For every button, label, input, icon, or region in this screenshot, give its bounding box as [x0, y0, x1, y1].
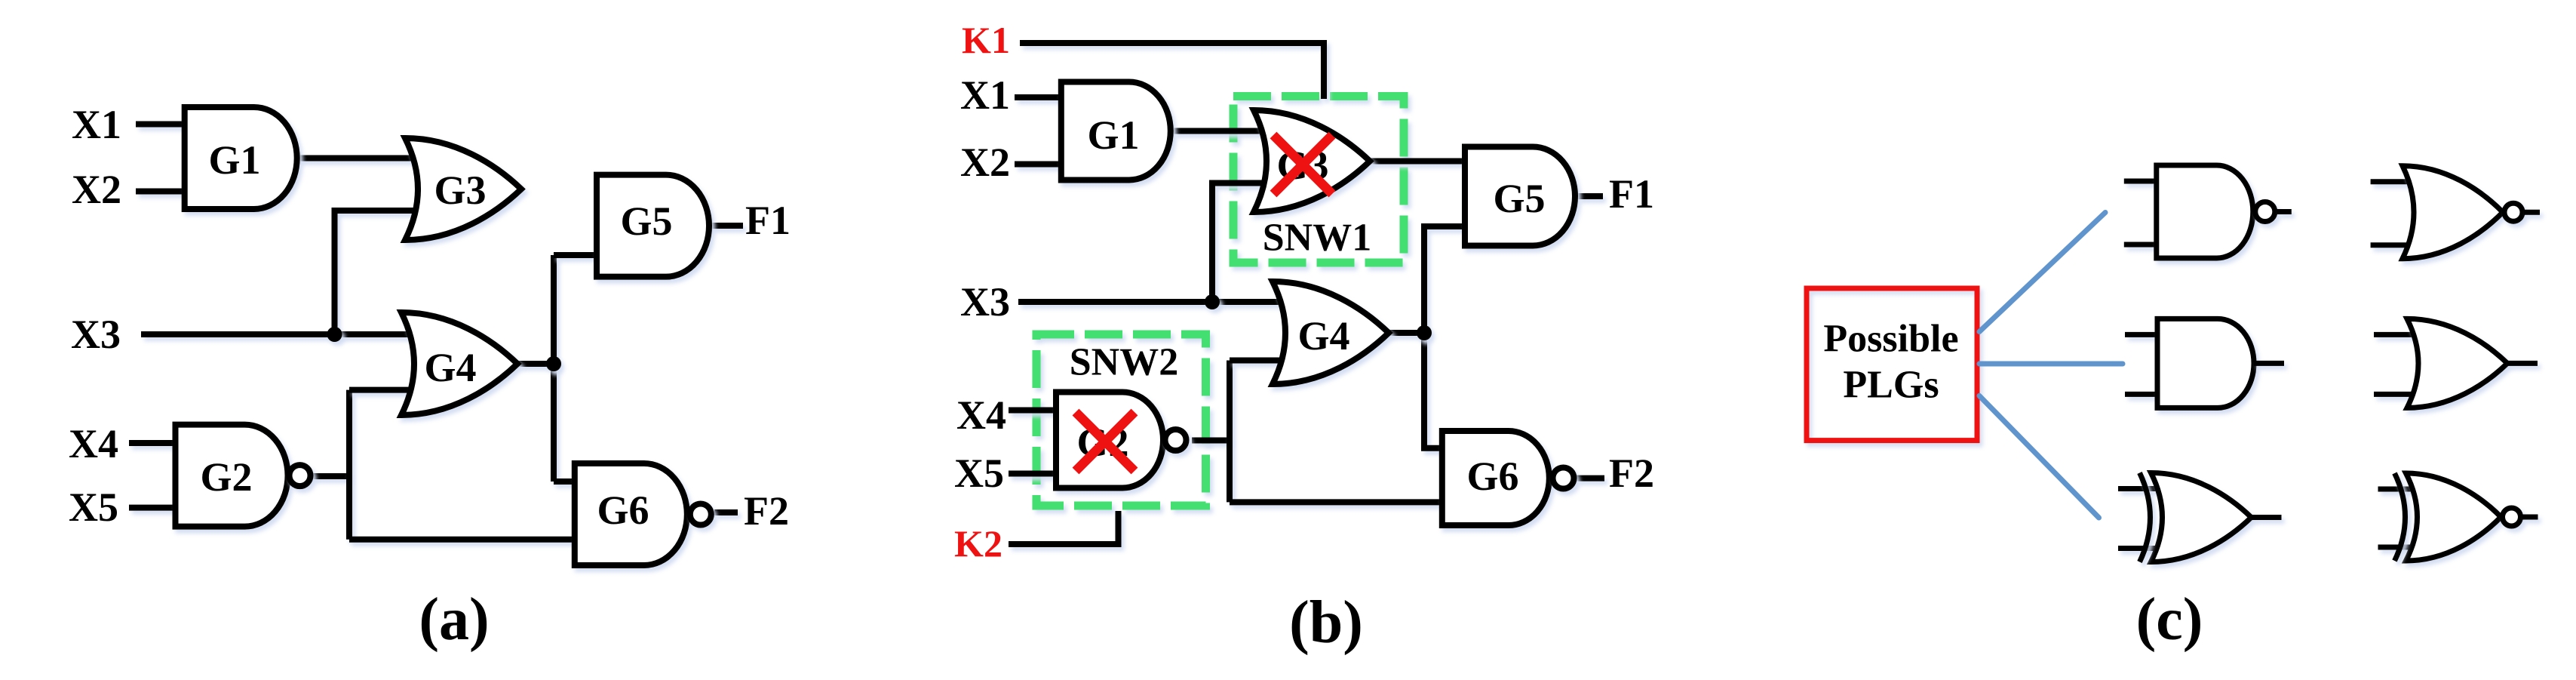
svg-text:X2: X2 — [72, 167, 121, 212]
svg-text:K1: K1 — [962, 19, 1010, 61]
svg-text:X4: X4 — [69, 421, 118, 466]
svg-text:F1: F1 — [1609, 171, 1654, 217]
svg-text:(b): (b) — [1289, 589, 1363, 656]
svg-text:X3: X3 — [71, 312, 121, 357]
svg-text:Possible: Possible — [1823, 318, 1958, 361]
svg-text:F2: F2 — [744, 488, 789, 534]
svg-text:PLGs: PLGs — [1843, 364, 1939, 407]
svg-text:X4: X4 — [956, 392, 1006, 438]
svg-text:F2: F2 — [1609, 451, 1654, 496]
svg-text:G6: G6 — [1466, 454, 1518, 499]
svg-text:SNW2: SNW2 — [1070, 341, 1178, 384]
svg-text:(a): (a) — [419, 586, 489, 653]
svg-text:X1: X1 — [72, 102, 121, 147]
svg-text:G1: G1 — [208, 137, 260, 183]
svg-text:(c): (c) — [2136, 586, 2203, 653]
svg-text:X3: X3 — [960, 279, 1010, 325]
svg-text:F1: F1 — [745, 198, 791, 243]
svg-text:G6: G6 — [597, 488, 649, 533]
svg-text:SNW1: SNW1 — [1263, 217, 1371, 260]
svg-text:G1: G1 — [1087, 112, 1139, 158]
svg-text:X1: X1 — [960, 72, 1010, 118]
svg-text:G4: G4 — [1297, 313, 1349, 358]
svg-text:G5: G5 — [620, 198, 672, 244]
svg-text:X5: X5 — [69, 485, 118, 530]
svg-text:X2: X2 — [960, 140, 1010, 185]
svg-text:X5: X5 — [954, 451, 1004, 496]
svg-text:G5: G5 — [1493, 176, 1545, 221]
svg-text:G2: G2 — [200, 454, 252, 500]
svg-text:K2: K2 — [954, 522, 1002, 565]
svg-text:G3: G3 — [434, 168, 486, 213]
svg-text:G4: G4 — [424, 345, 476, 390]
